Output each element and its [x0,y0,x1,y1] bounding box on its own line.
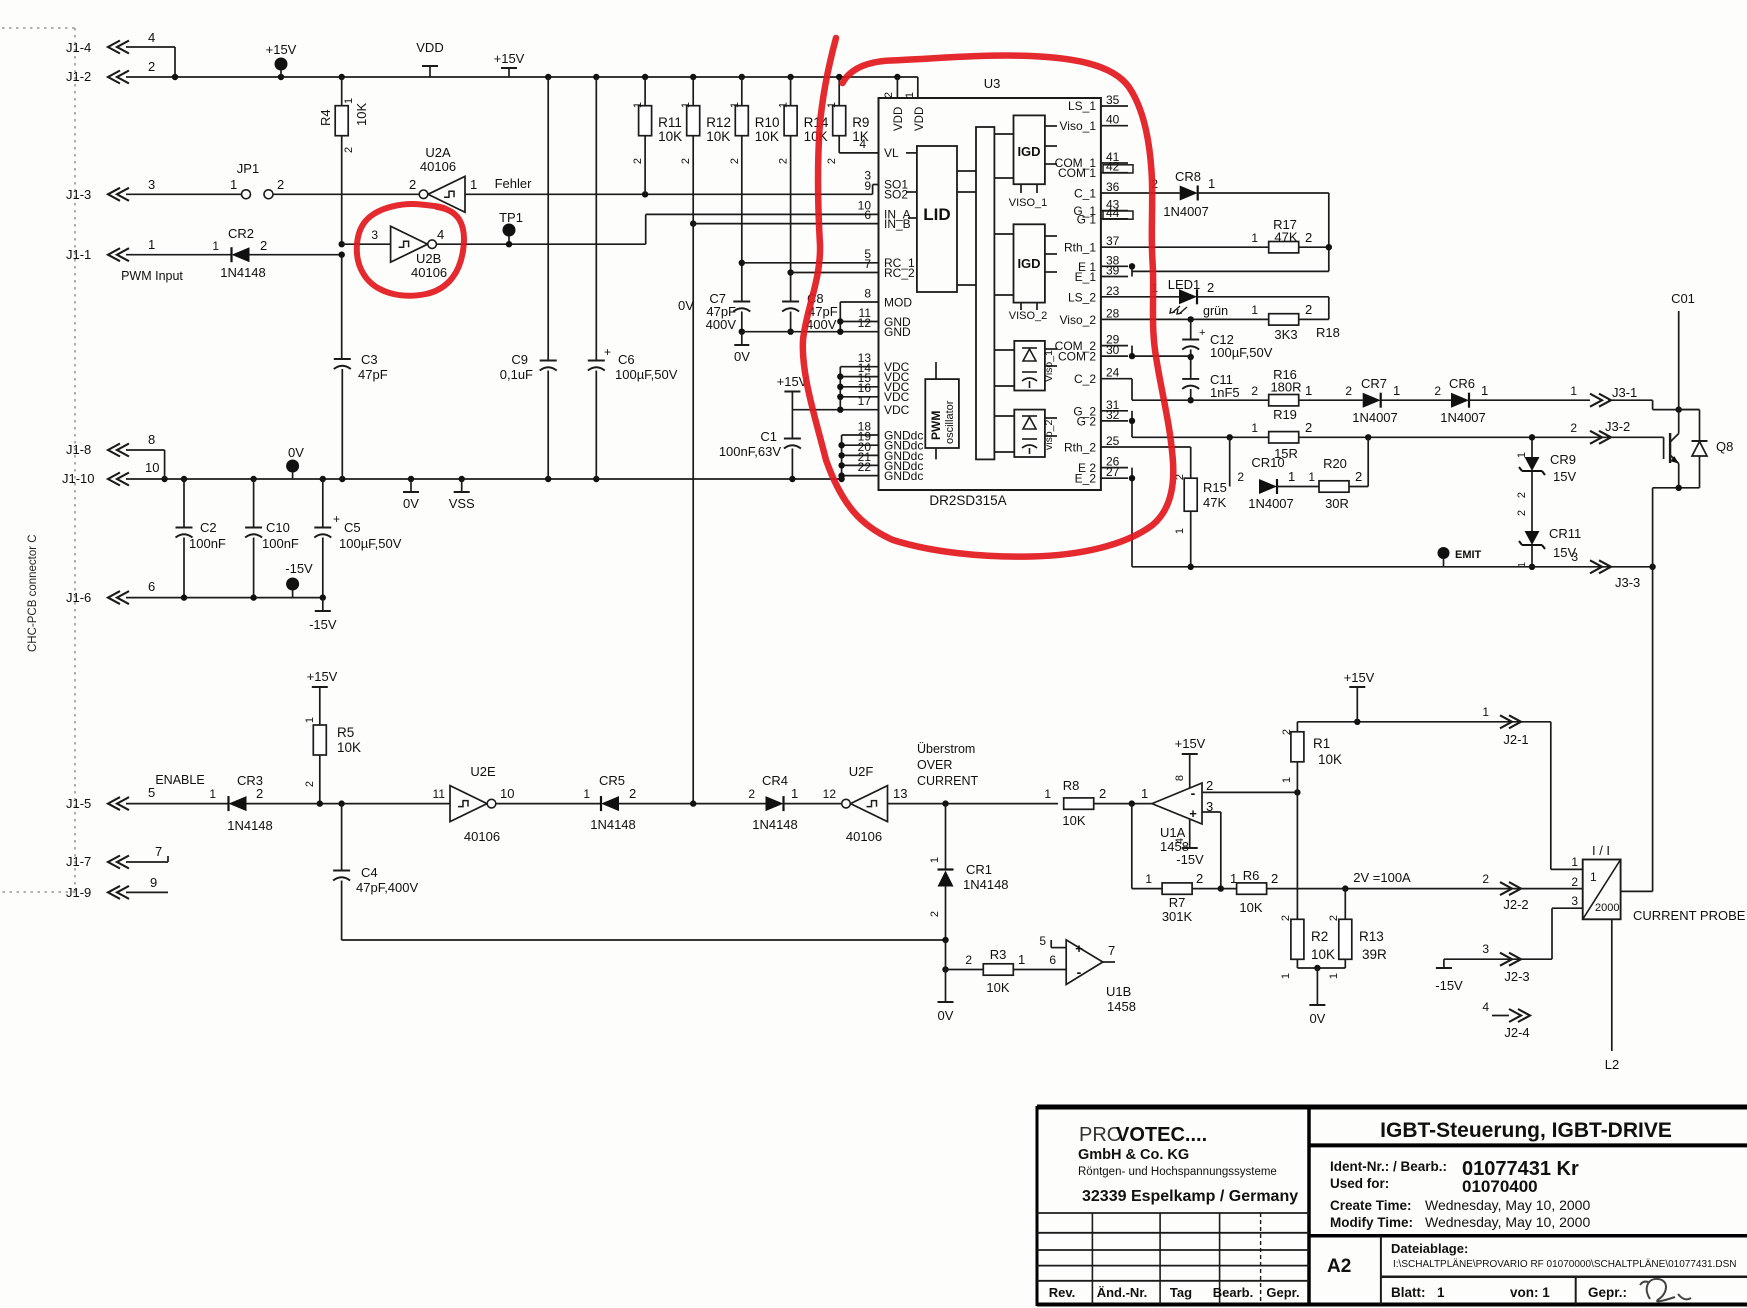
svg-text:47K: 47K [1274,230,1297,245]
svg-text:Überstrom: Überstrom [917,742,975,756]
svg-text:C2: C2 [200,520,217,535]
wire U1A pin2 to R1/R2 [1202,791,1297,793]
svg-text:2V =100A: 2V =100A [1353,870,1411,885]
capacitor C11 1nF5 [1190,357,1192,379]
resistor R7 301K [1162,883,1192,894]
svg-text:11: 11 [433,787,446,801]
wire J2-2 line [1266,888,1583,890]
svg-text:VL: VL [884,146,899,160]
svg-text:GND: GND [884,325,911,339]
wire C_1 pin36 [1128,192,1180,194]
svg-text:J1-6: J1-6 [66,590,91,605]
svg-text:IGBT-Steuerung, IGBT-DRIVE: IGBT-Steuerung, IGBT-DRIVE [1380,1119,1672,1142]
capacitor C6 100uF,50V [595,77,597,361]
op-amp U1B 1458 [1066,940,1103,985]
svg-text:+15V: +15V [1344,670,1375,685]
wire LED1 to R18 corner [1197,296,1329,298]
revision table [1037,1212,1309,1214]
svg-text:1N4148: 1N4148 [963,877,1009,892]
svg-text:7: 7 [864,257,871,271]
svg-text:J1-5: J1-5 [66,796,91,811]
svg-text:1: 1 [1570,384,1577,398]
svg-text:1: 1 [1251,303,1258,317]
svg-text:2: 2 [1482,872,1489,886]
svg-text:400V: 400V [706,317,737,332]
wire LID internal stubs [906,152,917,154]
svg-text:J3-2: J3-2 [1605,419,1630,434]
wire GND pin12 [742,331,879,333]
svg-text:100nF,63V: 100nF,63V [719,444,781,459]
svg-text:Gepr.:: Gepr.: [1588,1285,1627,1300]
svg-text:39R: 39R [1362,947,1387,962]
zener CR11 15V [1525,531,1540,545]
svg-text:IGD: IGD [1017,144,1040,159]
svg-text:2: 2 [778,158,790,164]
wire Viso_2 pin28 line [1128,318,1269,320]
svg-text:1: 1 [1288,469,1295,484]
wire top +15V rail [126,76,918,78]
wire JP1 to U2A output [273,193,420,195]
svg-text:COM 2: COM 2 [1058,350,1096,364]
resistor R18 3K3 [1269,314,1299,325]
inverter U2E 40106 [450,786,487,822]
svg-text:C10: C10 [266,520,290,535]
svg-text:1N4007: 1N4007 [1440,410,1486,425]
diode Q8 freewheel [1679,409,1700,411]
svg-text:R15: R15 [1203,480,1227,495]
svg-text:1nF5: 1nF5 [1210,385,1240,400]
inverter U2B 40106 [391,226,428,262]
svg-text:1458: 1458 [1107,999,1136,1014]
svg-text:0V: 0V [938,1008,954,1023]
power -15V U1A pin4 [1189,819,1191,848]
svg-text:RC_2: RC_2 [884,266,915,280]
wire J2-1 line [1297,721,1550,723]
svg-text:CHC-PCB connector C: CHC-PCB connector C [27,534,39,652]
pin 30 [1101,355,1128,357]
wire CR2 to node [250,254,342,256]
block IGD 1 [1014,115,1045,184]
svg-text:-: - [1077,964,1082,980]
svg-text:2: 2 [1571,875,1578,889]
pin 27 [1101,477,1128,479]
wire L2 [1611,919,1613,1051]
svg-text:1: 1 [1281,777,1293,783]
resistor R16 180R [1269,395,1299,406]
svg-text:32: 32 [1106,408,1120,422]
svg-text:2: 2 [1305,420,1312,435]
svg-text:CR11: CR11 [1549,526,1581,541]
wire R9 to VL pin4 [838,136,840,153]
wire Rth_1 pin37 to R17 [1128,246,1269,248]
svg-text:CR4: CR4 [762,773,788,788]
svg-text:7: 7 [1108,943,1115,958]
svg-text:36: 36 [1106,180,1120,194]
wire EMIT line [1132,566,1653,568]
svg-text:2: 2 [748,787,755,801]
svg-text:40106: 40106 [846,829,882,844]
svg-text:J1-4: J1-4 [66,40,91,55]
wire SO1 jog [872,185,874,195]
svg-text:Bearb.: Bearb. [1213,1285,1253,1300]
svg-text:3K3: 3K3 [1274,327,1297,342]
svg-text:40106: 40106 [464,829,500,844]
svg-text:VISO_2: VISO_2 [1009,310,1048,322]
svg-text:100µF,50V: 100µF,50V [339,536,402,551]
svg-text:VDD: VDD [893,107,905,131]
wire LS_2 pin23 [1128,296,1179,298]
svg-text:C01: C01 [1671,291,1695,306]
svg-text:1: 1 [1018,952,1025,967]
svg-text:2: 2 [148,59,155,74]
svg-text:1: 1 [729,102,741,108]
svg-text:J1-7: J1-7 [66,854,91,869]
svg-text:3: 3 [371,228,378,242]
page border (dashed) [2,28,75,892]
svg-text:Ident-Nr.: / Bearb.:: Ident-Nr.: / Bearb.: [1330,1159,1447,1174]
capacitor C8 47pF 400V [782,301,799,303]
wire C4 to 0V line [342,939,946,941]
resistor R10 10K [741,77,743,106]
svg-text:R2: R2 [1311,929,1328,944]
svg-text:+15V: +15V [266,42,297,57]
wire U1B pin5 to 0V line [1051,947,1066,949]
svg-text:J1-2: J1-2 [66,69,91,84]
svg-text:39: 39 [1106,264,1120,278]
svg-text:30R: 30R [1325,496,1349,511]
svg-text:1: 1 [1208,176,1215,191]
svg-text:R11: R11 [658,115,682,130]
svg-text:+: + [1075,941,1083,956]
svg-text:1: 1 [209,787,216,801]
svg-text:U2F: U2F [849,764,874,779]
ground VSS [461,479,463,492]
svg-text:Used for:: Used for: [1330,1176,1389,1191]
svg-text:CR5: CR5 [599,773,625,788]
svg-text:35: 35 [1106,93,1120,107]
svg-text:1N4007: 1N4007 [1352,410,1398,425]
svg-text:1: 1 [1308,470,1315,484]
svg-text:J3-3: J3-3 [1615,575,1640,590]
svg-text:-15V: -15V [1435,978,1463,993]
ground 0V under CR1 [938,1001,954,1003]
svg-text:1: 1 [1044,787,1051,801]
svg-text:400V: 400V [806,317,837,332]
testpoint TP1 [508,236,510,244]
svg-text:100nF: 100nF [262,536,299,551]
svg-text:Änd.-Nr.: Änd.-Nr. [1097,1285,1148,1300]
wire GNDdc pins 18-22 [842,434,879,436]
svg-text:R8: R8 [1063,778,1080,793]
svg-text:-15V: -15V [1176,852,1204,867]
svg-text:L2: L2 [1605,1057,1619,1072]
diode CR3 1N4148 [229,796,247,811]
svg-text:1: 1 [1571,855,1578,869]
svg-text:C6: C6 [618,352,635,367]
pin 23 [1101,296,1128,298]
inverter U2A 40106 [428,176,465,212]
pin 44 [1101,218,1128,220]
capacitor C5 100uF,50V [322,479,324,528]
pin 37 [1101,246,1128,248]
svg-text:G 2: G 2 [1077,414,1097,428]
svg-text:100nF: 100nF [189,536,226,551]
svg-text:R13: R13 [1359,929,1384,944]
ground 0V [410,479,412,492]
svg-text:1: 1 [791,786,798,801]
resistor R20 30R [1319,481,1349,492]
wire U1A pin3 to node B [1202,811,1221,813]
svg-text:2: 2 [1207,280,1214,295]
svg-text:MOD: MOD [884,296,912,310]
wire E_1 pins 38/39 [1131,266,1133,276]
svg-text:VDD: VDD [416,40,443,55]
svg-text:CR6: CR6 [1449,376,1475,391]
svg-text:Dateiablage:: Dateiablage: [1391,1241,1468,1256]
svg-text:Rth_1: Rth_1 [1064,241,1096,255]
svg-text:30: 30 [1106,343,1120,357]
svg-text:2: 2 [304,781,316,787]
svg-text:2: 2 [1206,778,1213,793]
svg-text:37: 37 [1106,234,1120,248]
wire R3 line [946,969,984,971]
svg-text:2: 2 [260,238,267,253]
svg-text:32339 Espelkamp / Germany: 32339 Espelkamp / Germany [1082,1188,1298,1205]
svg-text:0V: 0V [1309,1011,1325,1026]
svg-text:C4: C4 [361,865,378,880]
wire corner to probe pin1 [1550,722,1552,870]
svg-text:2: 2 [729,158,741,164]
svg-text:Wednesday, May 10, 2000: Wednesday, May 10, 2000 [1425,1197,1590,1213]
resistor R9 1K [838,77,840,106]
block opto viso_1 [1014,341,1045,391]
svg-text:8: 8 [864,287,871,301]
svg-text:8: 8 [1174,775,1186,781]
svg-text:2: 2 [1271,871,1278,886]
svg-text:viso_2: viso_2 [1043,419,1055,450]
svg-text:1N4148: 1N4148 [752,817,798,832]
svg-text:7: 7 [155,844,162,859]
svg-text:Gepr.: Gepr. [1266,1285,1299,1300]
pin 42 [1101,172,1128,174]
pin 40 [1101,125,1128,127]
svg-text:15V: 15V [1553,469,1576,484]
svg-text:2: 2 [1099,786,1106,801]
svg-text:1: 1 [680,102,692,108]
wire MOD pin8 [840,301,878,303]
svg-text:17: 17 [858,394,872,408]
svg-text:1: 1 [230,177,237,192]
svg-text:IN_B: IN_B [884,217,911,231]
svg-text:10K: 10K [1318,752,1342,767]
svg-text:1N4148: 1N4148 [227,818,273,833]
svg-text:R14: R14 [804,115,829,130]
svg-text:2: 2 [1196,871,1203,886]
svg-text:PWM Input: PWM Input [121,269,183,283]
wire VDD pins (2,1) [896,77,898,98]
svg-text:1: 1 [632,102,644,108]
pin 43 [1101,210,1128,212]
svg-text:-15V: -15V [309,617,337,632]
pin 24 [1101,378,1128,380]
annotation red circle around U3 [803,38,1173,557]
diode CR1 1N4148 [945,804,947,870]
svg-text:2: 2 [1434,384,1441,398]
resistor R17 47K [1269,242,1299,253]
svg-text:C_1: C_1 [1074,187,1096,201]
wire R11 to Fehler line [644,136,646,195]
svg-text:2: 2 [409,177,416,192]
transistor Q8 (IGBT) [1663,437,1665,459]
svg-text:10K: 10K [755,129,779,144]
power +15V U1A pin8 [1189,754,1191,789]
pin 32 [1101,420,1128,422]
svg-text:2: 2 [1251,384,1258,398]
resistor R1 10K [1296,722,1298,732]
pad box pin 42 [1103,165,1133,173]
svg-text:C3: C3 [361,352,378,367]
wire CR5 to CR4 [619,803,766,805]
svg-text:PWM: PWM [929,411,943,440]
svg-text:C_2: C_2 [1074,372,1096,386]
svg-text:CR9: CR9 [1550,452,1576,467]
svg-text:2: 2 [343,147,355,153]
svg-text:100µF,50V: 100µF,50V [1210,345,1273,360]
wire U2E to CR5 [496,803,601,805]
svg-text:10K: 10K [337,740,361,755]
pin 25 [1101,446,1128,448]
svg-text:1: 1 [1305,383,1312,398]
wire C_2 pin24 to R16 line [1128,378,1132,380]
wire node to U2B input [342,243,391,245]
wire RC_2 [787,269,793,275]
resistor R11 10K [644,77,646,106]
svg-text:I:\SCHALTPLÄNE\PROVARIO RF 010: I:\SCHALTPLÄNE\PROVARIO RF 01070000\SCHA… [1393,1258,1737,1270]
svg-text:1: 1 [1481,383,1488,398]
wire E_2 pins26/27 to EMIT line [1131,468,1133,567]
svg-text:3: 3 [1571,550,1578,564]
svg-text:J1-8: J1-8 [66,442,91,457]
capacitor C3 47pF [341,255,343,359]
svg-text:CURRENT: CURRENT [917,774,978,788]
svg-text:27: 27 [1106,465,1120,479]
svg-text:COM 1: COM 1 [1058,166,1096,180]
svg-text:1: 1 [1393,383,1400,398]
svg-text:VSS: VSS [449,496,475,511]
resistor R5 10K [313,725,326,755]
resistor R4 10K [341,77,343,106]
wire C7 to GND line [741,312,743,332]
svg-text:1: 1 [1141,786,1148,801]
svg-text:1: 1 [1174,528,1186,534]
op-amp U3 DR2SD315A (IC body) [879,98,1101,490]
svg-text:J1-1: J1-1 [66,247,91,262]
svg-text:EMIT: EMIT [1455,549,1482,561]
svg-text:2: 2 [1345,384,1352,398]
diode CR2 1N4148 [232,247,250,262]
diode CR8 1N4007 [1180,186,1198,201]
svg-text:4: 4 [859,137,866,151]
svg-text:3: 3 [1571,894,1578,908]
capacitor C10 100nF [253,479,255,528]
svg-text:301K: 301K [1162,909,1193,924]
svg-text:1: 1 [212,239,219,253]
svg-text:IGD: IGD [1017,256,1040,271]
svg-text:J1-3: J1-3 [66,187,91,202]
svg-text:C5: C5 [344,520,361,535]
svg-text:VDC: VDC [884,403,910,417]
block IGD 2 [1014,224,1045,302]
svg-text:10K: 10K [1311,947,1335,962]
svg-text:16: 16 [858,381,872,395]
svg-text:2: 2 [1516,492,1528,498]
svg-text:12: 12 [823,787,837,801]
svg-text:2000: 2000 [1595,902,1619,914]
inverter U2F 40106 [851,786,888,822]
LED LED1 gruen [1179,289,1197,304]
ground -15V [322,598,324,611]
svg-text:J3-1: J3-1 [1612,385,1637,400]
svg-text:10: 10 [500,786,514,801]
svg-text:LED1: LED1 [1168,277,1201,292]
svg-text:2: 2 [1305,230,1312,245]
resistor R14 10K [790,77,792,106]
svg-text:2: 2 [1237,470,1244,484]
svg-text:OVER: OVER [917,758,952,772]
svg-text:2: 2 [883,92,895,98]
svg-text:SO2: SO2 [884,188,908,202]
svg-text:LS_1: LS_1 [1068,99,1096,113]
svg-text:5: 5 [1039,934,1046,948]
svg-text:+15V: +15V [494,51,525,66]
capacitor C7 47pF 400V [733,301,750,303]
svg-text:Create Time:: Create Time: [1330,1198,1412,1213]
svg-text:10K: 10K [658,129,682,144]
svg-text:R20: R20 [1323,456,1347,471]
svg-text:R18: R18 [1316,325,1340,340]
svg-text:Fehler: Fehler [495,176,533,191]
svg-text:10K: 10K [1062,813,1085,828]
svg-text:R1: R1 [1313,736,1330,751]
svg-text:Q8: Q8 [1716,439,1733,454]
svg-text:ENABLE: ENABLE [155,773,204,787]
wire RC_1 [739,260,745,266]
svg-text:-15V: -15V [285,561,313,576]
svg-text:VDC: VDC [884,390,910,404]
ground 0V under C7 [741,332,743,345]
wire U2B out to IN_A [436,243,645,245]
resistor R19 15R [1269,432,1299,443]
svg-text:180R: 180R [1270,380,1301,395]
svg-text:42: 42 [1106,160,1120,174]
svg-text:1: 1 [583,787,590,801]
pin 26 [1101,467,1128,469]
resistor R15 47K [1184,478,1197,511]
svg-text:4: 4 [148,30,155,45]
svg-text:1: 1 [778,102,790,108]
op-amp U1A 1458 [1152,783,1202,824]
svg-text:Viso_1: Viso_1 [1043,350,1055,382]
svg-text:R9: R9 [852,115,869,130]
svg-text:10K: 10K [354,103,369,126]
wire J3-1 to collector [1652,400,1654,409]
svg-text:10K: 10K [706,129,730,144]
svg-text:47K: 47K [1203,495,1226,510]
resistor R13 39R [1344,889,1346,920]
svg-text:40: 40 [1106,113,1120,127]
svg-text:100µF,50V: 100µF,50V [615,367,678,382]
svg-text:2: 2 [1305,302,1312,317]
